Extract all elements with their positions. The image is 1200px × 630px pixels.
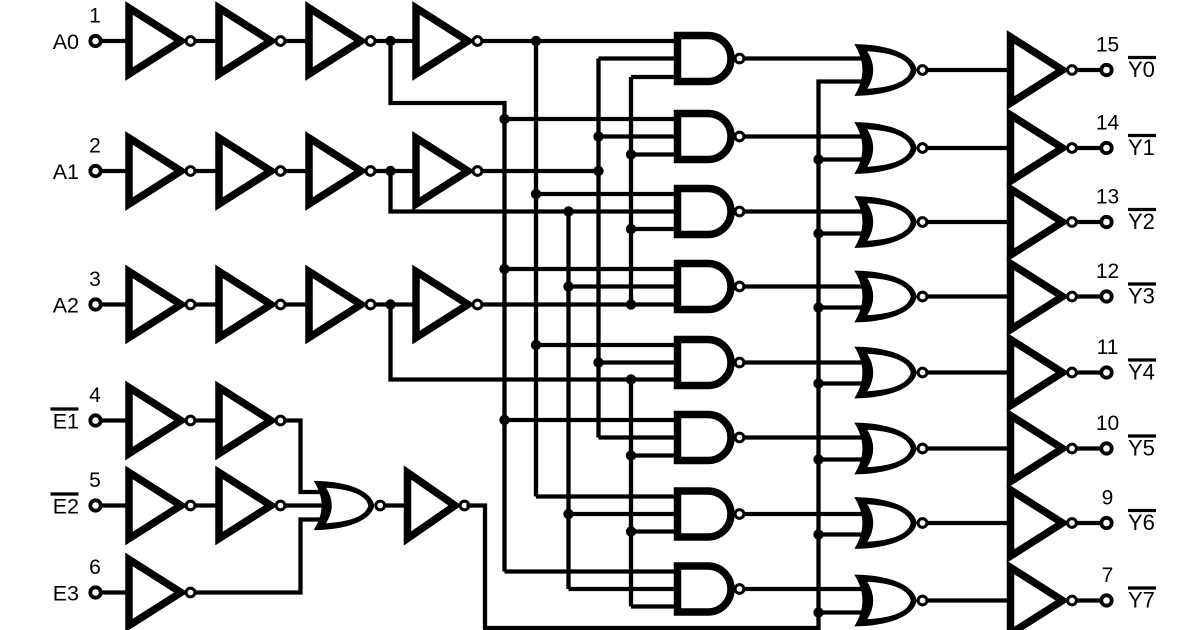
NAND gate N6 — [678, 415, 732, 461]
svg-text:Y4: Y4 — [1128, 360, 1155, 385]
inverter A2-3 — [309, 272, 361, 338]
wire A1 true to NAND N2 middle input — [599, 134, 678, 138]
label Y3 — [1128, 282, 1156, 285]
junction A0 true to NAND N3 — [531, 189, 541, 199]
wire A0 true to NAND N3 top input — [536, 192, 678, 196]
wire NOR G6 output to output inverter — [928, 446, 1011, 450]
wire A1 complement to NAND N8 middle input — [569, 587, 678, 591]
label Y7 — [1128, 586, 1156, 589]
wire enable bus to NOR G2 bottom input — [819, 157, 870, 161]
wire A2 true bus — [629, 77, 633, 305]
wire A1 true to NAND N1 middle input — [599, 56, 678, 60]
terminal pin 1 (A0) — [90, 36, 100, 46]
svg-text:Y5: Y5 — [1128, 436, 1155, 461]
svg-text:Y0: Y0 — [1128, 57, 1155, 82]
inverter E2-1 — [129, 473, 181, 539]
NOR gate G8 — [854, 575, 916, 627]
junction node A2 true tap — [626, 299, 636, 309]
wire A2 complement to NAND N8 bottom input — [631, 604, 678, 608]
inverter A1-1 — [129, 138, 181, 204]
wire output inverter Y3 to terminal — [1077, 294, 1107, 298]
inverter E3-1 — [129, 560, 181, 626]
terminal pin 15 (Y0) — [1101, 65, 1111, 75]
wire output inverter Y7 to terminal — [1077, 598, 1107, 602]
output inverter Y0 — [1011, 37, 1063, 103]
wire enable bus to NOR G8 bottom input — [819, 610, 870, 614]
junction node A0 complement tap — [385, 36, 395, 46]
terminal pin 12 (Y3) — [1101, 291, 1111, 301]
NOR gate G7 — [854, 497, 916, 549]
wire A2 true to NAND N2 bottom input — [631, 152, 678, 156]
svg-text:10: 10 — [1096, 412, 1119, 435]
inverter A1-4 — [416, 138, 468, 204]
wire NAND N7 output to NOR G7 top input — [745, 512, 870, 516]
wire A2 inverter 3 to inverter 4 — [375, 302, 413, 306]
wire NOR G4 output to output inverter — [928, 294, 1011, 298]
junction A0 complement to NAND N4 — [499, 264, 509, 274]
wire output inverter Y2 to terminal — [1077, 220, 1107, 224]
wire NOR G5 output to output inverter — [928, 370, 1011, 374]
output inverter Y7 — [1011, 568, 1063, 630]
wire A1 inverter 1 to 2 — [195, 169, 216, 173]
svg-text:E1: E1 — [53, 410, 79, 434]
label Y5 — [1128, 434, 1156, 437]
inverter A2-2 — [219, 272, 271, 338]
wire A2 complement to NAND N7 bottom input — [631, 529, 678, 533]
junction enable bus row 4 — [813, 378, 823, 388]
svg-text:A2: A2 — [53, 294, 79, 318]
svg-text:E2: E2 — [53, 495, 79, 519]
NAND gate N1 — [678, 36, 732, 82]
svg-text:Y2: Y2 — [1128, 209, 1155, 234]
junction enable bus row 1 — [813, 154, 823, 164]
wire NOR G1 output to output inverter — [928, 68, 1011, 72]
svg-text:3: 3 — [89, 268, 101, 291]
label Y2 — [1128, 208, 1156, 211]
NAND gate N3 — [678, 189, 732, 235]
output inverter Y1 — [1011, 115, 1063, 181]
output inverter Y4 — [1011, 340, 1063, 406]
svg-text:5: 5 — [89, 469, 101, 492]
wire A0 complement to NAND N6 top input — [505, 418, 678, 422]
wire output inverter Y0 to terminal — [1077, 68, 1107, 72]
wire E1 terminal to inverter — [101, 418, 126, 422]
inverter A0-1 — [129, 8, 181, 74]
inverter A1-2 — [219, 138, 271, 204]
svg-text:6: 6 — [89, 556, 101, 579]
junction node A1 complement tap — [385, 166, 395, 176]
output inverter Y6 — [1011, 490, 1063, 556]
junction A0 complement to NAND N6 — [499, 415, 509, 425]
NOR gate G2 — [854, 122, 916, 174]
wire NAND N3 output to NOR G3 top input — [745, 209, 870, 213]
NOR gate G4 — [854, 271, 916, 323]
wire A1 true line to bus — [482, 169, 599, 173]
svg-text:2: 2 — [89, 135, 101, 158]
svg-text:A0: A0 — [53, 30, 79, 54]
junction A0 complement to NAND N2 — [499, 114, 509, 124]
wire A1 true to NAND N5 middle input — [599, 360, 678, 364]
svg-text:4: 4 — [89, 384, 101, 407]
wire A2 true to NAND N1 bottom input — [631, 75, 678, 79]
wire A0 true to NAND N5 top input — [536, 343, 678, 347]
NAND gate N7 — [678, 491, 732, 537]
junction node A0 true tap — [531, 36, 541, 46]
svg-text:9: 9 — [1102, 487, 1114, 510]
svg-text:E3: E3 — [53, 582, 79, 606]
junction enable bus row 2 — [813, 228, 823, 238]
wire A2 true to NAND N3 bottom input — [631, 227, 678, 231]
OR gate enable (E1+E2+E3) — [314, 481, 375, 530]
svg-text:15: 15 — [1096, 34, 1119, 57]
wire A2 inverter 2 to 3 — [285, 302, 306, 306]
wire A1 true bus — [596, 59, 600, 438]
wire A0 inverter 2 to 3 — [285, 39, 306, 43]
svg-text:12: 12 — [1096, 260, 1119, 283]
label Y4 — [1128, 358, 1156, 361]
svg-text:1: 1 — [89, 5, 101, 28]
output inverter Y3 — [1011, 264, 1063, 330]
terminal pin 10 (Y5) — [1101, 443, 1111, 453]
wire A1 complement to NAND N4 middle input — [569, 284, 678, 288]
wire enable OR to enable inverter — [383, 503, 405, 507]
wire A2 terminal to inverter — [101, 302, 126, 306]
junction A1 complement to NAND N4 — [563, 281, 573, 291]
junction A2 true to NAND N2 — [626, 149, 636, 159]
wire output inverter Y1 to terminal — [1077, 146, 1107, 150]
terminal pin 7 (Y7) — [1101, 595, 1111, 605]
inverter A0-3 — [309, 8, 361, 74]
label E1 — [51, 407, 79, 410]
wire A0 complement bus — [391, 41, 505, 572]
output inverter Y5 — [1011, 416, 1063, 482]
junction A2 complement branch — [626, 374, 636, 384]
NOR gate G5 — [854, 347, 916, 399]
svg-text:Y3: Y3 — [1128, 284, 1155, 309]
wire A0 complement to NAND N8 top input — [505, 569, 678, 573]
junction A1 complement branch — [563, 206, 573, 216]
wire enable bus to NOR G5 bottom input — [819, 381, 870, 385]
junction node A1 true tap — [593, 166, 603, 176]
wire E2 terminal to inverter — [101, 503, 126, 507]
wire enable bus to NOR G7 bottom input — [819, 532, 870, 536]
wire A1 complement bus — [566, 212, 570, 590]
wire output inverter Y6 to terminal — [1077, 521, 1107, 525]
wire A0 inverter 3 to inverter 4 — [375, 39, 413, 43]
wire enable bus to NOR G4 bottom input — [819, 305, 870, 309]
junction enable bus row 3 — [813, 302, 823, 312]
svg-text:A1: A1 — [53, 160, 79, 184]
wire NOR G3 output to output inverter — [928, 220, 1011, 224]
inverter E1-1 — [129, 388, 181, 454]
wire NOR G2 output to output inverter — [928, 146, 1011, 150]
svg-text:Y7: Y7 — [1128, 588, 1155, 613]
wire A0 complement to NAND N4 top input — [505, 267, 678, 271]
wire A0 terminal to inverter — [101, 39, 126, 43]
svg-text:Y6: Y6 — [1128, 510, 1155, 535]
label Y6 — [1128, 509, 1156, 512]
junction A0 true to NAND N5 — [531, 340, 541, 350]
NAND gate N2 — [678, 114, 732, 160]
wire NAND N2 output to NOR G2 top input — [745, 134, 870, 138]
inverter A0-2 — [219, 8, 271, 74]
label Y1 — [1128, 134, 1156, 137]
inverter enable — [408, 473, 456, 539]
junction A1 true to NAND N5 — [593, 357, 603, 367]
wire A2 complement to NAND N6 bottom input — [631, 453, 678, 457]
wire E3 to enable OR gate bottom input — [195, 520, 329, 593]
wire A0 true to NAND N7 top input — [536, 494, 678, 498]
terminal pin 3 (A2) — [90, 299, 100, 309]
wire A0 complement to NAND N2 top input — [505, 117, 678, 121]
junction A2 true to NAND N3 — [626, 224, 636, 234]
wire E2 to enable OR gate middle input — [285, 503, 329, 507]
terminal pin 9 (Y6) — [1101, 518, 1111, 528]
junction enable bus row 6 — [813, 529, 823, 539]
NOR gate G1 — [854, 44, 916, 96]
junction enable bus row 5 — [813, 454, 823, 464]
inverter A0-4 — [416, 8, 468, 74]
terminal pin 4 (E1) — [90, 415, 100, 425]
inverter A1-3 — [309, 138, 361, 204]
junction A2 complement to NAND N6 — [626, 450, 636, 460]
svg-text:Y1: Y1 — [1128, 135, 1155, 160]
svg-text:7: 7 — [1102, 564, 1114, 587]
terminal pin 6 (E3) — [90, 587, 100, 597]
wire NOR G8 output to output inverter — [928, 598, 1011, 602]
NOR gate G6 — [854, 423, 916, 475]
inverter E2-2 — [219, 473, 271, 539]
wire NAND N8 output to NOR G8 top input — [745, 587, 870, 591]
svg-text:14: 14 — [1096, 112, 1120, 135]
inverter A2-1 — [129, 272, 181, 338]
terminal pin 14 (Y1) — [1101, 143, 1111, 153]
wire E1 inverter 1 to 2 — [195, 418, 216, 422]
junction A1 complement to NAND N7 — [563, 509, 573, 519]
NAND gate N4 — [678, 264, 732, 310]
wire output inverter Y5 to terminal — [1077, 446, 1107, 450]
wire NAND N4 output to NOR G4 top input — [745, 284, 870, 288]
junction node A2 complement tap — [385, 299, 395, 309]
NAND gate N8 — [678, 566, 732, 612]
label E2 — [51, 492, 79, 495]
NOR gate G3 — [854, 196, 916, 248]
output inverter Y2 — [1011, 189, 1063, 255]
terminal pin 13 (Y2) — [1101, 217, 1111, 227]
wire E3 terminal to inverter — [101, 590, 126, 594]
inverter A2-4 — [416, 272, 468, 338]
wire A1 inverter 2 to 3 — [285, 169, 306, 173]
wire A1 inverter 3 to inverter 4 — [375, 169, 413, 173]
junction enable bus row 7 — [813, 607, 823, 617]
wire A2 true line to NAND N4 bottom input — [482, 302, 678, 306]
inverter E1-2 — [219, 388, 271, 454]
wire A1 complement to NAND N3 middle input — [391, 171, 678, 212]
wire enable bus to NOR G6 bottom input — [819, 457, 870, 461]
wire E1 to enable OR gate top input — [285, 421, 329, 493]
terminal pin 2 (A1) — [90, 166, 100, 176]
label Y0 — [1128, 56, 1156, 59]
wire enable bus to NOR G3 bottom input — [819, 231, 870, 235]
wire enable inverter output to enable bus — [467, 82, 870, 629]
wire A0 inverter 1 to 2 — [195, 39, 216, 43]
junction A2 complement to NAND N7 — [626, 526, 636, 536]
wire A0 true bus — [534, 41, 538, 497]
wire NAND N6 output to NOR G6 top input — [745, 435, 870, 439]
wire NAND N5 output to NOR G5 top input — [745, 360, 870, 364]
wire A2 inverter 1 to 2 — [195, 302, 216, 306]
wire A1 terminal to inverter — [101, 169, 126, 173]
wire NOR G7 output to output inverter — [928, 521, 1011, 525]
wire output inverter Y4 to terminal — [1077, 370, 1107, 374]
wire E2 inverter 1 to 2 — [195, 503, 216, 507]
wire A1 complement to NAND N7 middle input — [569, 512, 678, 516]
NAND gate N5 — [678, 340, 732, 386]
wire NAND N1 output to NOR G1 top input — [745, 56, 870, 60]
wire A0 true line to NAND N1 top input — [482, 39, 678, 43]
terminal pin 5 (E2) — [90, 500, 100, 510]
wire A1 true to NAND N6 middle input — [599, 435, 678, 439]
wire A2 complement to NAND N5 bottom input — [391, 305, 678, 380]
terminal pin 11 (Y4) — [1101, 367, 1111, 377]
svg-text:13: 13 — [1096, 186, 1119, 209]
junction A1 true to NAND N2 — [593, 131, 603, 141]
wire A2 complement bus — [629, 380, 633, 607]
svg-text:11: 11 — [1097, 336, 1119, 359]
